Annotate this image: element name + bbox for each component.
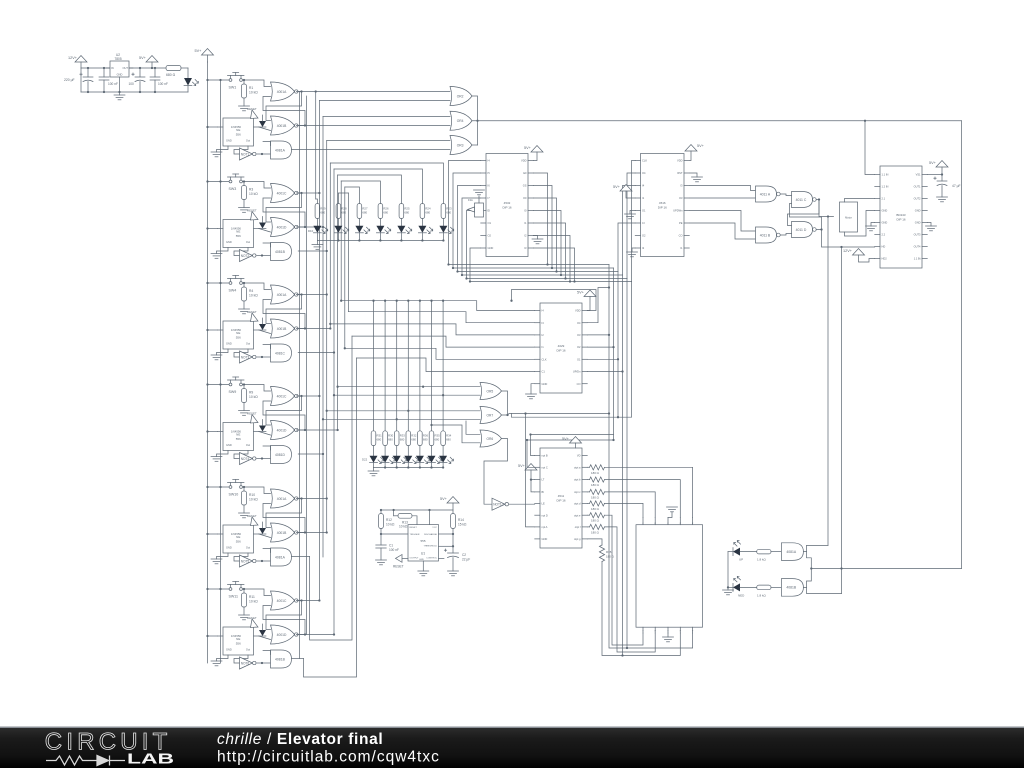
svg-text:GND: GND — [488, 246, 494, 250]
svg-text:PE: PE — [679, 221, 683, 225]
svg-text:LE: LE — [542, 502, 545, 506]
wire IC2 to 4011A 1 — [690, 186, 756, 191]
wire 4081A out dn — [807, 552, 812, 569]
svg-text:4011 C: 4011 C — [796, 198, 807, 202]
svg-text:R9: R9 — [249, 391, 253, 395]
svg-text:680: 680 — [446, 438, 451, 442]
switch SW3 — [228, 174, 245, 191]
svg-text:4081B: 4081B — [275, 250, 286, 254]
svg-text:EI: EI — [488, 209, 491, 213]
junction L3 — [329, 323, 331, 325]
wire IC1 rpin 4 — [533, 198, 556, 272]
nor gate 4001D — [271, 421, 298, 440]
wire OR6 out — [484, 439, 508, 505]
junction tap — [326, 531, 328, 533]
svg-text:NOT10: NOT10 — [493, 503, 504, 507]
ground 556 — [211, 146, 228, 157]
junction — [608, 286, 610, 288]
switch SW10 — [228, 480, 245, 497]
flag RESET — [247, 107, 258, 119]
ground IC2 mid — [625, 211, 636, 219]
svg-text:U1: U1 — [421, 552, 425, 556]
svg-text:4029: 4029 — [558, 344, 565, 348]
svg-text:680: 680 — [446, 211, 451, 215]
wire grid vert — [431, 301, 433, 431]
inverter NOT3 — [240, 351, 257, 363]
junction bus bb4 — [461, 274, 463, 276]
svg-text:otpt e: otpt e — [574, 513, 581, 517]
svg-text:Out: Out — [246, 443, 250, 447]
junction rail A — [206, 383, 208, 385]
node latch b — [304, 531, 306, 533]
wire array1 feed col0 — [316, 199, 318, 204]
svg-text:12V+: 12V+ — [68, 56, 78, 60]
ground leds — [723, 590, 734, 595]
ground 556 — [211, 349, 228, 360]
or gate OR6 — [480, 430, 502, 447]
inverter NOT6 — [240, 657, 257, 669]
nor gate 4001D — [271, 218, 298, 237]
svg-text:GND: GND — [542, 382, 548, 386]
junction rail A 556 — [206, 227, 208, 229]
svg-text:4001C: 4001C — [277, 191, 287, 195]
wire block tap — [298, 226, 323, 228]
wire bus v8 — [340, 181, 342, 301]
ground array1 — [312, 241, 323, 250]
node latch a — [300, 192, 302, 194]
junction rail A 556 — [206, 430, 208, 432]
wire IC2 lpin6 — [618, 223, 635, 272]
ground 555 — [418, 571, 429, 576]
wire 556 out to gate B — [259, 330, 271, 334]
svg-text:100 nF: 100 nF — [108, 82, 118, 86]
resistor R4 10k — [241, 283, 258, 309]
svg-text:HD: HD — [882, 245, 886, 249]
nor gate 4001A — [271, 285, 298, 304]
and gate 4081D — [271, 446, 292, 464]
svg-text:O4: O4 — [642, 171, 646, 175]
svg-text:555: 555 — [420, 539, 425, 543]
node resistor top — [243, 383, 245, 385]
svg-text:4081A: 4081A — [275, 148, 286, 152]
junction grid — [396, 300, 398, 302]
switch SW1 — [228, 73, 245, 90]
wire NOT out — [257, 356, 271, 358]
LED D10 — [313, 226, 327, 241]
wire bottom bus 3 — [458, 271, 619, 273]
power flag 5V+ U5 — [929, 161, 948, 175]
wire led gnd vert — [727, 552, 729, 590]
wire switch row — [208, 588, 229, 590]
wire res to gateB — [771, 586, 781, 588]
svg-text:1.8 kΩ: 1.8 kΩ — [757, 558, 767, 562]
junction — [326, 410, 328, 412]
resistor R33 680 — [394, 431, 405, 446]
wire discharge — [439, 533, 454, 535]
resistor 180 seg — [587, 465, 692, 518]
svg-text:Out: Out — [246, 546, 250, 550]
wire vert 618 — [617, 272, 619, 418]
svg-text:180 Ω: 180 Ω — [591, 507, 600, 511]
svg-text:GS: GS — [523, 184, 527, 188]
svg-text:OR6: OR6 — [486, 437, 493, 441]
inverter NOT2 — [240, 250, 257, 262]
svg-text:CI: CI — [642, 221, 645, 225]
svg-text:CLK: CLK — [542, 357, 547, 361]
ground 556 — [211, 553, 228, 564]
wire L6 — [357, 358, 535, 372]
diode reset D — [259, 217, 266, 229]
node cap47 — [941, 173, 943, 175]
svg-text:5V+: 5V+ — [929, 161, 937, 165]
wire IC1 lpin 2 — [453, 173, 481, 268]
wire rail to 556 — [208, 126, 218, 128]
svg-text:LAB: LAB — [127, 751, 174, 768]
svg-text:OUT4: OUT4 — [914, 245, 921, 249]
svg-text:BD243: BD243 — [896, 213, 906, 217]
wire array1 join — [317, 240, 443, 242]
ground display bottom — [663, 633, 674, 642]
wire bottom rail — [81, 91, 188, 93]
wire rail to 556 — [208, 635, 218, 637]
svg-text:THRESHOLD: THRESHOLD — [424, 545, 438, 547]
wire switch row — [208, 486, 229, 488]
junction rail A 556 — [206, 635, 208, 637]
node latch b — [304, 124, 306, 126]
junction tap — [336, 429, 338, 431]
flag RESET out — [393, 555, 408, 569]
wire grid vert — [373, 301, 375, 431]
nor gate 4001B — [271, 523, 298, 542]
wire ned to res — [740, 586, 757, 588]
display DS1 — [636, 518, 703, 634]
wire L5 — [345, 348, 535, 359]
svg-text:RST: RST — [677, 171, 683, 175]
svg-text:180 Ω: 180 Ω — [591, 483, 600, 487]
inverter NOT5 — [240, 555, 257, 567]
wire switch row — [208, 79, 229, 81]
svg-text:4081D: 4081D — [275, 453, 286, 457]
wire IC4 p1 — [531, 435, 535, 456]
wire IC3 r6 — [587, 371, 622, 373]
svg-text:4516: 4516 — [659, 201, 666, 205]
wire array1 feed — [330, 163, 443, 204]
node NOT out — [261, 662, 263, 664]
wire IC2 lpin2 — [627, 173, 635, 279]
wire switch to gate — [243, 385, 271, 392]
label 1/64556 — [231, 227, 242, 231]
wire bus h1 — [298, 91, 450, 93]
svg-text:680: 680 — [404, 211, 409, 215]
junction grid — [372, 300, 374, 302]
svg-text:NOT6: NOT6 — [241, 662, 250, 666]
wire OR3 out — [472, 144, 478, 146]
wire 556 out pin — [234, 248, 248, 256]
resistor R13 10k h — [394, 510, 417, 529]
regulator U2 7805 — [106, 53, 133, 77]
svg-text:otpt a: otpt a — [574, 465, 581, 469]
flag RESET — [247, 310, 258, 322]
wire IC1 lpin 4 — [462, 198, 481, 275]
node 811 568 — [810, 567, 812, 569]
junction grid — [384, 300, 386, 302]
wire C out down — [819, 200, 834, 217]
wire bus v9 — [344, 187, 346, 348]
svg-text:R10: R10 — [249, 493, 255, 497]
power flag 5V+ IC3 — [577, 290, 596, 311]
svg-text:LT: LT — [542, 478, 545, 482]
node led gnd — [727, 586, 729, 588]
power flag 5V+ LTBI — [518, 464, 537, 492]
LED UP — [733, 541, 743, 562]
wire control stub — [439, 557, 445, 559]
ic U1 555 — [408, 525, 439, 561]
junction rail A — [206, 486, 208, 488]
junction — [608, 412, 610, 414]
svg-text:GND: GND — [117, 73, 123, 77]
junction array2 — [442, 466, 444, 468]
svg-text:10 kΩ: 10 kΩ — [249, 498, 258, 502]
junction — [569, 280, 571, 282]
wire motor bottom — [845, 211, 875, 237]
svg-text:O0: O0 — [523, 196, 527, 200]
node latch a — [300, 497, 302, 499]
svg-text:O3: O3 — [577, 333, 581, 337]
wire latch A-B — [266, 396, 302, 425]
power flag 12V+ U5 — [843, 249, 875, 263]
resistor R26 680 — [378, 204, 389, 226]
wire switch to gate — [243, 80, 271, 87]
node resistor top — [243, 180, 245, 182]
wire A to C — [780, 194, 791, 196]
wire bus v2 — [318, 101, 320, 601]
junction rail B — [219, 588, 221, 590]
wire IC3 r1 loop — [512, 290, 597, 311]
wire OR7 in2 — [323, 418, 480, 420]
wire 555 gnd — [422, 561, 424, 571]
svg-text:556: 556 — [236, 234, 241, 238]
flag cluster — [468, 190, 485, 217]
wire bus v3 — [322, 117, 324, 558]
flag RESET — [247, 412, 258, 424]
svg-text:C1: C1 — [542, 370, 546, 374]
wire 556 out to gate B — [259, 127, 271, 131]
ground cap47 — [937, 197, 948, 202]
junction — [564, 277, 566, 279]
junction tap — [329, 327, 331, 329]
resistor R14 15k — [451, 510, 467, 534]
resistor 180 seg — [587, 489, 655, 517]
svg-text:C2: C2 — [462, 553, 466, 557]
wire bottom bus 5 — [467, 278, 628, 280]
nand gate 4011C — [792, 192, 817, 208]
resistor 1.8k up — [757, 549, 771, 561]
svg-text:4011 D: 4011 D — [796, 228, 807, 232]
junction grid — [430, 300, 432, 302]
svg-text:otpt g: otpt g — [574, 537, 581, 541]
svg-text:SW4: SW4 — [229, 289, 237, 293]
capacitor 100nF b — [150, 68, 168, 92]
wire 4081 in upper — [263, 243, 271, 247]
svg-text:556: 556 — [236, 133, 241, 137]
wire switch to gate — [243, 487, 271, 494]
LED NED — [733, 576, 745, 597]
junction rail A — [206, 282, 208, 284]
svg-text:DISCHARGE: DISCHARGE — [424, 533, 438, 536]
wire up to res — [740, 551, 757, 553]
wire bus v5 — [329, 163, 331, 329]
svg-text:O1: O1 — [488, 221, 492, 225]
resistor R27 680 — [357, 204, 368, 226]
junction array2 — [419, 466, 421, 468]
junction 841 cross — [840, 567, 842, 569]
wire rail A vertical — [207, 62, 209, 663]
wire OR2 out — [472, 96, 478, 145]
wire 555 vcc — [429, 510, 431, 525]
wire block tap — [298, 328, 330, 330]
wire 12V left drop — [80, 68, 82, 92]
wire IC1 lpin 1 — [449, 161, 481, 265]
svg-text:4001B: 4001B — [277, 531, 287, 535]
flag RESET — [247, 209, 258, 221]
diode reset D — [259, 420, 266, 432]
node resistor top — [243, 79, 245, 81]
svg-text:OR5: OR5 — [486, 389, 493, 393]
ground 556 — [211, 451, 228, 462]
wire switch to gate — [243, 283, 271, 290]
wire B to D — [780, 234, 791, 236]
junction — [608, 334, 610, 336]
svg-text:DIP 16: DIP 16 — [556, 349, 565, 353]
wire cascade vertical a — [299, 92, 301, 659]
junction rail A — [206, 79, 208, 81]
svg-text:Out: Out — [246, 139, 250, 143]
svg-text:OR2: OR2 — [457, 94, 464, 98]
svg-text:680: 680 — [383, 211, 388, 215]
junction array1 — [358, 239, 360, 241]
label 1/64556 — [231, 328, 242, 332]
svg-text:4001A: 4001A — [277, 497, 287, 501]
svg-text:SW9: SW9 — [229, 390, 237, 394]
svg-text:otpt b: otpt b — [574, 478, 581, 482]
wire vert 609 — [609, 265, 693, 649]
wire bus v1 — [315, 92, 317, 200]
wire bottom bus 4 — [462, 274, 623, 276]
wire bus v4 — [326, 141, 328, 533]
junction — [529, 433, 531, 435]
wire latch A-B — [266, 193, 302, 222]
svg-text:UPDWn: UPDWn — [673, 209, 683, 213]
junction — [621, 370, 623, 372]
switch SW11 — [228, 582, 245, 599]
wire block tap — [298, 294, 327, 296]
or gate OR2 — [450, 87, 472, 106]
resistor R35 180 — [587, 539, 680, 656]
junction rail A — [206, 180, 208, 182]
svg-text:GND: GND — [882, 221, 888, 225]
LED D12 — [355, 226, 369, 241]
svg-text:1/64556: 1/64556 — [231, 328, 242, 332]
motor M1 — [840, 202, 858, 232]
svg-text:OUT: OUT — [123, 66, 129, 70]
svg-text:VDD: VDD — [575, 309, 581, 313]
node NOT out — [261, 153, 263, 155]
resistor R32 680 — [406, 431, 417, 446]
nor gate 4001A — [271, 489, 298, 508]
svg-text:4011 B: 4011 B — [760, 233, 771, 237]
wire bus v6 — [333, 169, 335, 635]
resistor R11 10k — [241, 589, 258, 615]
junction — [612, 439, 614, 441]
junction rail B — [219, 383, 221, 385]
wire h4165 drop — [511, 414, 513, 418]
wire bus v10 — [347, 193, 349, 312]
svg-text:2.2: 2.2 — [882, 233, 886, 237]
resistor R9 10k — [241, 385, 258, 411]
wire h440 — [527, 439, 614, 441]
junction rail A 556 — [206, 329, 208, 331]
svg-text:R12: R12 — [386, 518, 392, 522]
svg-text:R11: R11 — [249, 595, 255, 599]
nor gate 4001D — [271, 625, 298, 644]
wire OR7 in1 — [327, 410, 480, 412]
wire block tap — [298, 192, 319, 194]
wire IC3 r3 — [587, 334, 609, 336]
wire bus v7 — [337, 175, 339, 430]
wire latch B-A — [263, 606, 305, 635]
wire block tap — [298, 250, 327, 252]
svg-text:4081B: 4081B — [275, 657, 286, 661]
power flag 5V+ 555 — [440, 497, 459, 511]
junction array2 — [430, 466, 432, 468]
wire tap and b5 — [292, 556, 310, 558]
wire IC1 lpin8 — [470, 248, 481, 282]
timer 556 block 5 — [218, 525, 259, 553]
wire 556 out to gate B — [259, 534, 271, 538]
svg-text:O3: O3 — [679, 196, 683, 200]
junction x841 — [840, 246, 842, 248]
svg-text:12V+: 12V+ — [843, 249, 853, 253]
wire IC2 lpin1 — [632, 161, 636, 282]
wire block tap — [298, 634, 334, 636]
svg-text:680 Ω: 680 Ω — [166, 73, 176, 77]
svg-text:GND: GND — [226, 648, 232, 652]
ground under R9 — [239, 411, 250, 416]
junction tap — [318, 395, 320, 397]
node — [154, 91, 156, 93]
svg-text:5V+: 5V+ — [139, 56, 147, 60]
ground U5 right — [926, 223, 937, 231]
svg-text:680: 680 — [423, 438, 428, 442]
svg-text:O2: O2 — [488, 234, 492, 238]
wire loop1 — [304, 358, 357, 677]
wire array1 feed — [334, 169, 422, 204]
wire bus h2 — [319, 100, 450, 102]
ic U7 4511 — [535, 448, 588, 548]
timer 556 block 3 — [218, 321, 259, 349]
junction — [617, 416, 619, 418]
wire D out down — [822, 230, 875, 248]
junction array1 — [400, 239, 402, 241]
node latch b — [304, 429, 306, 431]
node — [139, 67, 141, 69]
svg-text:NOT5: NOT5 — [241, 560, 250, 564]
power flag 12V+ — [68, 56, 87, 69]
svg-text:RESET: RESET — [410, 527, 418, 529]
wire IC1 lpin 3 — [458, 186, 481, 272]
svg-text:180 Ω: 180 Ω — [591, 530, 600, 534]
resistor R29 680 — [315, 204, 326, 226]
